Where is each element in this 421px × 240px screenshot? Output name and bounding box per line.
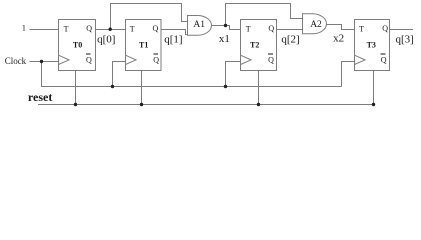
svg-text:Q: Q — [381, 55, 387, 64]
svg-text:q[3]: q[3] — [396, 34, 414, 46]
svg-text:Q: Q — [86, 55, 92, 64]
svg-text:q[2]: q[2] — [281, 34, 299, 46]
svg-text:A1: A1 — [193, 20, 205, 30]
svg-text:q[1]: q[1] — [164, 34, 182, 46]
svg-text:Q: Q — [382, 24, 388, 33]
svg-text:Q: Q — [268, 24, 274, 33]
svg-text:T: T — [130, 24, 135, 33]
svg-text:Q: Q — [153, 24, 159, 33]
svg-text:T2: T2 — [250, 40, 259, 49]
svg-text:T: T — [64, 24, 69, 33]
svg-text:x1: x1 — [219, 33, 230, 45]
svg-text:Q: Q — [86, 24, 92, 33]
svg-text:Q: Q — [153, 55, 159, 64]
svg-text:T0: T0 — [73, 40, 82, 49]
svg-text:reset: reset — [28, 90, 52, 104]
svg-text:A2: A2 — [310, 20, 322, 30]
svg-text:Clock: Clock — [5, 56, 27, 66]
svg-text:T3: T3 — [367, 40, 376, 49]
svg-text:T1: T1 — [139, 40, 148, 49]
svg-text:T: T — [246, 24, 251, 33]
svg-text:x2: x2 — [333, 33, 344, 45]
svg-text:T: T — [359, 24, 364, 33]
svg-text:1: 1 — [22, 23, 26, 33]
svg-text:q[0]: q[0] — [97, 34, 115, 46]
svg-text:Q: Q — [268, 55, 274, 64]
